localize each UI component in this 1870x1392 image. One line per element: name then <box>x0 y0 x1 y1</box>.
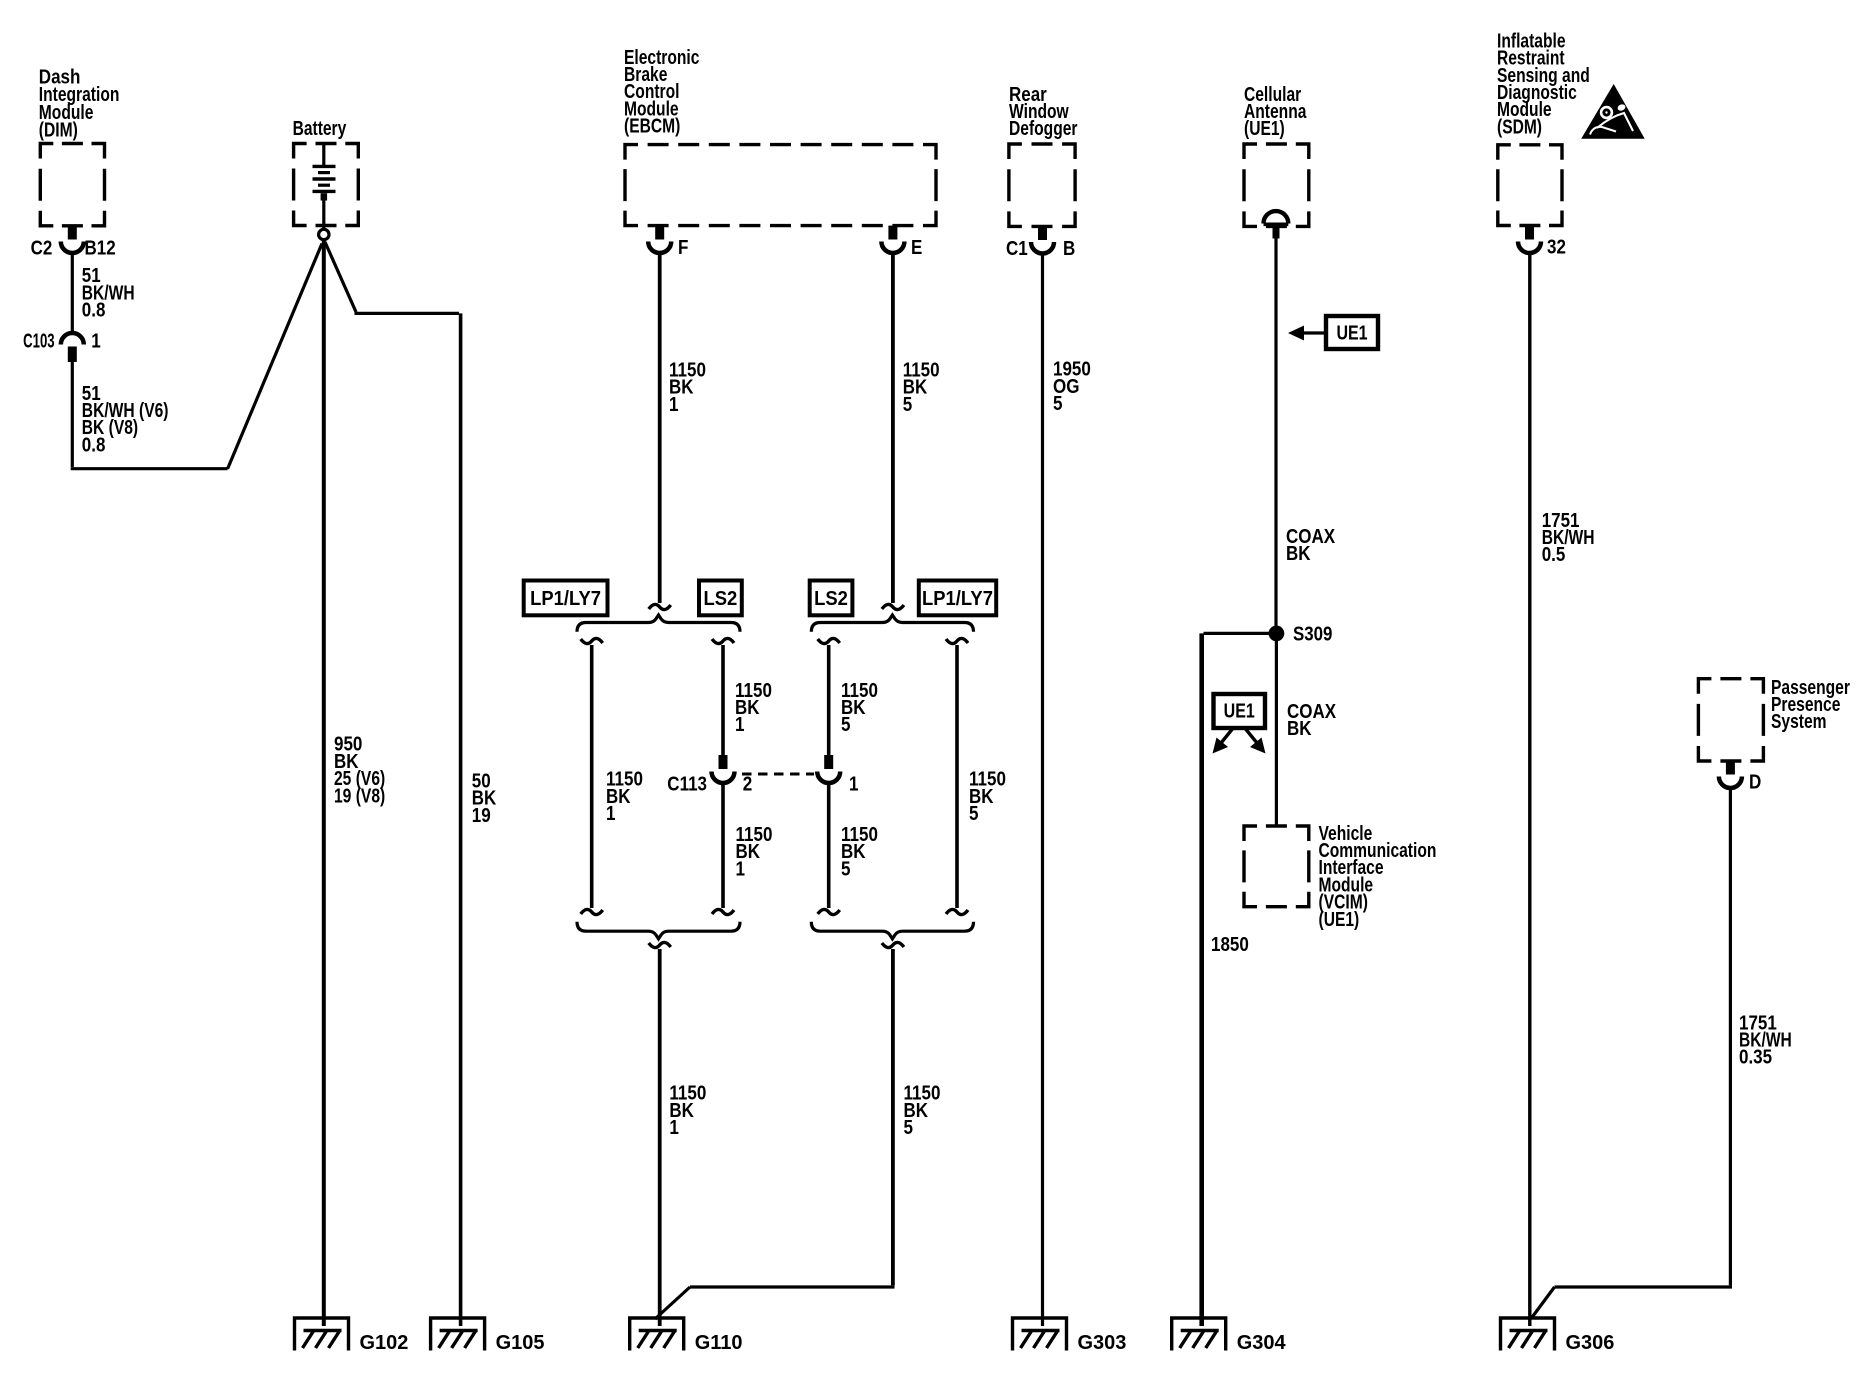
svg-text:1: 1 <box>736 858 746 880</box>
ground G303 <box>1011 1318 1068 1351</box>
svg-text:C113: C113 <box>667 773 707 795</box>
svg-text:1: 1 <box>606 803 616 825</box>
wire 1950 OG 5 to G303 <box>1041 253 1044 1326</box>
connector C2 pin B12 <box>61 242 84 254</box>
svg-text:5: 5 <box>841 714 851 736</box>
wire 1150 BK 1 to G110 <box>658 949 662 1326</box>
connector pin D <box>1719 777 1742 789</box>
wire 1150 BK 5 from E <box>891 253 895 604</box>
svg-text:1: 1 <box>669 394 679 416</box>
squiggle below left brace <box>649 942 671 947</box>
brace merge right bottom <box>811 922 973 939</box>
option box LP1/LY7 left <box>524 581 608 616</box>
svg-text:LP1/LY7: LP1/LY7 <box>530 588 601 610</box>
antenna dome symbol <box>1264 211 1289 223</box>
wire battery node to G105 branch <box>325 242 356 312</box>
UE1 option flag with arrow <box>1326 316 1378 349</box>
svg-text:C103: C103 <box>23 330 55 352</box>
EBCM pin F stub <box>655 226 664 240</box>
svg-text:5: 5 <box>841 858 851 880</box>
option box LP1/LY7 right <box>919 581 996 616</box>
module Passenger Presence System box <box>1698 679 1763 761</box>
svg-text:Defogger: Defogger <box>1009 118 1078 140</box>
svg-text:LS2: LS2 <box>814 588 848 610</box>
wire option LS2 1150 BK 1 lower <box>721 783 725 909</box>
PPS pin stub <box>1726 761 1735 775</box>
module SDM box <box>1498 145 1562 226</box>
svg-text:Battery: Battery <box>293 118 347 140</box>
squiggle bottom LS2 right <box>818 909 840 914</box>
svg-text:0.8: 0.8 <box>82 434 106 456</box>
SDM pin stub <box>1525 226 1534 240</box>
battery symbol <box>322 144 325 166</box>
svg-text:5: 5 <box>969 803 979 825</box>
connector pin E <box>881 242 904 254</box>
svg-text:B: B <box>1063 238 1075 260</box>
svg-text:BK: BK <box>1286 543 1311 565</box>
svg-text:(EBCM): (EBCM) <box>624 115 680 137</box>
svg-text:G304: G304 <box>1237 1332 1287 1354</box>
svg-text:G102: G102 <box>360 1332 409 1354</box>
wire option LS2 1150 BK 1 upper <box>721 645 725 755</box>
wire option LS2 1150 BK 5 upper <box>827 645 831 755</box>
wire option LP1/LY7 1150 BK 1 <box>590 645 594 908</box>
svg-text:0.5: 0.5 <box>1542 544 1566 566</box>
wire diagonal up to battery node <box>228 244 322 469</box>
airbag warning triangle <box>1581 84 1645 139</box>
wire 51 BK/WH(V6) BK(V8) down from C103 <box>71 362 74 467</box>
wire 1150 BK 5 to G110 <box>891 949 895 1285</box>
connector pin F <box>648 242 671 254</box>
wire horizontal run to battery <box>71 467 228 470</box>
svg-text:G110: G110 <box>695 1332 743 1354</box>
squiggle top of LS2 right wire <box>818 638 840 643</box>
svg-text:UE1: UE1 <box>1224 700 1255 722</box>
ground G306 <box>1499 1318 1556 1351</box>
svg-text:(UE1): (UE1) <box>1244 118 1285 140</box>
C103 pin stub <box>68 347 77 363</box>
module Cellular Antenna box <box>1244 144 1309 226</box>
connector C113 pin 2 <box>712 772 735 784</box>
option box LS2 left <box>699 581 742 616</box>
svg-text:19: 19 <box>472 805 491 827</box>
svg-text:32: 32 <box>1547 236 1566 258</box>
svg-text:(DIM): (DIM) <box>39 120 78 142</box>
module Rear Window Defogger box <box>1009 144 1075 226</box>
svg-text:2: 2 <box>743 773 753 795</box>
svg-text:1: 1 <box>849 773 859 795</box>
connector pin 32 <box>1518 242 1541 254</box>
svg-text:UE1: UE1 <box>1336 322 1367 344</box>
svg-text:S309: S309 <box>1293 624 1332 646</box>
wire 1150 BK 1 from F <box>658 253 662 604</box>
brace merge left bottom <box>577 922 740 939</box>
svg-text:BK: BK <box>1287 718 1312 740</box>
svg-text:C1: C1 <box>1006 238 1028 260</box>
squiggle bottom LP1 right <box>946 909 968 914</box>
svg-text:(UE1): (UE1) <box>1319 909 1360 931</box>
svg-text:5: 5 <box>903 394 913 416</box>
defogger pin stub <box>1038 226 1047 240</box>
coax wire lower to VCIM <box>1275 633 1278 827</box>
EBCM pin E stub <box>888 226 897 240</box>
wire option LP1/LY7 1150 BK 5 <box>955 645 959 908</box>
connector C103 pin 1 <box>61 333 84 345</box>
svg-text:F: F <box>678 237 688 259</box>
svg-text:1: 1 <box>735 714 745 736</box>
svg-text:0.35: 0.35 <box>1739 1047 1772 1069</box>
UE1 option flag with two arrows <box>1214 694 1266 728</box>
squiggle below right brace <box>882 942 904 947</box>
svg-text:B12: B12 <box>85 237 116 259</box>
svg-text:G306: G306 <box>1566 1332 1615 1354</box>
ground G304 <box>1170 1318 1227 1351</box>
connector C1 pin B <box>1031 242 1054 254</box>
module DIM box <box>40 144 104 226</box>
battery node circle <box>319 229 329 239</box>
option box LS2 right <box>810 581 853 616</box>
squiggle top LP1 right <box>946 638 968 643</box>
svg-text:C2: C2 <box>31 237 53 259</box>
svg-text:LS2: LS2 <box>704 588 738 610</box>
svg-text:1: 1 <box>91 330 101 352</box>
svg-text:G105: G105 <box>496 1332 545 1354</box>
svg-text:1: 1 <box>669 1117 679 1139</box>
ground G110 <box>628 1318 685 1351</box>
DIM pin stub <box>68 226 77 240</box>
C113 stub right <box>824 755 833 769</box>
squiggle bottom of LP1 wire <box>581 909 603 914</box>
ground G102 <box>293 1318 350 1351</box>
brace split right top <box>811 615 973 632</box>
battery box <box>294 144 359 226</box>
module EBCM box <box>625 145 936 226</box>
squiggle bottom of LS2 wire <box>712 909 734 914</box>
svg-text:G303: G303 <box>1078 1332 1127 1354</box>
svg-text:E: E <box>911 237 922 259</box>
wire 1751 BK/WH 0.35 <box>1729 788 1732 1286</box>
svg-text:System: System <box>1771 711 1827 733</box>
squiggle top of LS2 wire <box>712 638 734 643</box>
squiggle top of LP1 wire <box>581 638 603 643</box>
module VCIM box <box>1244 826 1309 907</box>
ground G105 <box>429 1318 486 1351</box>
C113 dashed link <box>742 773 814 776</box>
connector C113 pin 1 <box>817 772 840 784</box>
continuation squiggle under F wire <box>649 604 671 609</box>
brace split left top <box>577 615 740 632</box>
svg-text:5: 5 <box>904 1117 914 1139</box>
wire branch from S309 to G304 <box>1204 632 1277 635</box>
svg-text:1850: 1850 <box>1211 934 1249 956</box>
continuation squiggle under E wire <box>882 604 904 609</box>
wire option LS2 1150 BK 5 lower <box>827 783 831 909</box>
svg-text:5: 5 <box>1053 393 1063 415</box>
svg-text:D: D <box>1749 771 1761 793</box>
splice S309 <box>1269 626 1285 642</box>
svg-text:19 (V8): 19 (V8) <box>334 785 385 807</box>
antenna stub <box>1273 226 1280 238</box>
svg-text:(SDM): (SDM) <box>1497 116 1542 138</box>
svg-text:LP1/LY7: LP1/LY7 <box>922 588 993 610</box>
wire 1751 BK/WH 0.5 to G306 <box>1528 253 1531 1327</box>
coax wire upper <box>1274 239 1277 633</box>
svg-text:0.8: 0.8 <box>82 300 106 322</box>
wire battery to G102 <box>322 240 326 1326</box>
wire 51 BK/WH from DIM to C103 <box>71 253 74 334</box>
C113 stub left <box>719 755 728 769</box>
